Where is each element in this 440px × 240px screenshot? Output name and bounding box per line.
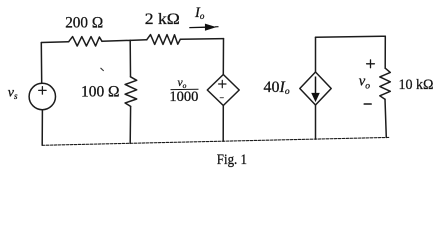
svg-text:1000: 1000 <box>169 89 198 105</box>
svg-text:Fig. 1: Fig. 1 <box>217 152 247 168</box>
wire from 100 ohm to bottom rail <box>129 106 131 143</box>
label 10 kohm <box>399 76 434 93</box>
wire from 10 kohm to bottom rail <box>385 99 386 137</box>
label 200 ohm <box>65 14 103 31</box>
wire from Vs bottom to bottom rail <box>41 110 43 146</box>
dependent current source U2 (40 Io) diamond <box>300 72 331 105</box>
scan speck above 100 ohm <box>101 68 104 70</box>
resistor 200 ohm <box>69 37 102 46</box>
wire bottom rail (ground return) <box>42 137 390 145</box>
wire from top rail down to 100 ohm <box>129 40 131 77</box>
plus sign inside Vs <box>39 87 46 94</box>
arrow inside U2 (pointing down) <box>312 77 318 101</box>
label 40Io <box>264 79 290 97</box>
wire top rail of right loop <box>316 36 386 37</box>
svg-text:200 Ω: 200 Ω <box>65 14 103 31</box>
voltage source Vs <box>29 83 55 109</box>
resistor 100 ohm <box>125 77 137 107</box>
wire from U2 bottom to bottom rail <box>315 105 317 139</box>
minus mark inside U1 <box>220 97 223 99</box>
dependent voltage source U1 (vo/1000) diamond <box>207 75 239 106</box>
wire from right top rail to 10 kohm <box>384 36 386 68</box>
current arrow Io above 2 kohm <box>189 25 218 30</box>
plus sign inside U1 <box>219 80 226 87</box>
minus polarity below vo <box>364 103 371 105</box>
label 100 ohm <box>81 83 120 100</box>
wire from right top rail to current source U2 <box>315 37 317 72</box>
fraction bar of vo/1000 <box>171 88 199 90</box>
resistor 10 kohm <box>380 68 391 99</box>
wire from 2 kohm to top-right corner of left loop <box>180 38 223 41</box>
svg-text:vs: vs <box>8 86 18 101</box>
caption Fig. 1 <box>217 152 247 168</box>
svg-text:vo: vo <box>359 74 370 92</box>
svg-text:10 kΩ: 10 kΩ <box>399 76 434 93</box>
label vs <box>8 86 18 101</box>
label 2 kohm <box>145 11 180 28</box>
svg-text:40Io: 40Io <box>264 79 290 97</box>
wire from U1 bottom to bottom rail <box>222 106 224 142</box>
svg-text:Io: Io <box>194 5 205 21</box>
svg-text:100 Ω: 100 Ω <box>81 83 120 100</box>
plus polarity above vo <box>367 60 375 68</box>
wire top-left segment <box>41 41 68 44</box>
wire between 200 ohm and 2 kohm <box>102 40 147 42</box>
label Io <box>194 5 205 21</box>
label vo <box>359 74 370 92</box>
resistor 2 kohm <box>147 35 181 45</box>
label vo/1000 numerator <box>178 77 187 90</box>
svg-text:2 kΩ: 2 kΩ <box>145 11 180 28</box>
label 1000 denominator <box>169 89 198 105</box>
wire down to dependent source U1 top <box>222 39 224 75</box>
wire left vertical from top wire to source Vs <box>40 43 42 84</box>
